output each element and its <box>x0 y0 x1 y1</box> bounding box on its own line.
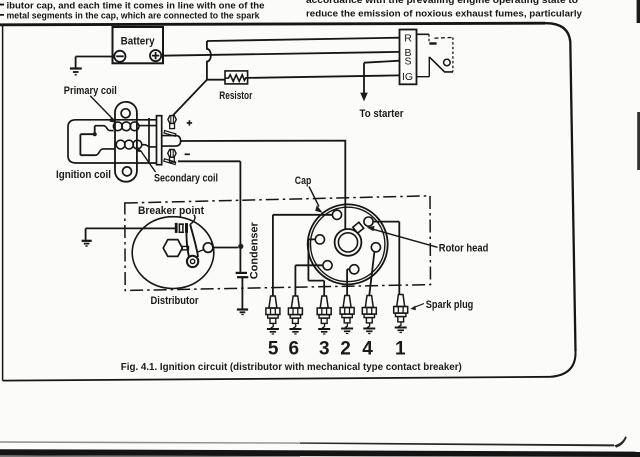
spark plug 5 <box>266 296 280 334</box>
wire coil - to breaker node <box>178 161 240 272</box>
svg-text:Resistor: Resistor <box>219 90 253 102</box>
label Breaker point with leader <box>138 205 204 225</box>
coil HT output nose <box>162 136 181 147</box>
cam hexagon <box>163 240 182 257</box>
page body text top-right <box>306 0 583 19</box>
svg-text:S: S <box>404 56 411 68</box>
ignition switch box U1 (R B S IG) <box>400 30 417 85</box>
wire cap terminal to plug 2 <box>347 269 350 295</box>
wire cap terminal to plug 4 <box>369 252 374 296</box>
breaker arm <box>186 225 198 258</box>
wire bus to R terminal <box>207 38 400 41</box>
battery positive terminal <box>150 50 161 61</box>
rotor head (tilted square) <box>353 222 364 233</box>
resistor R <box>219 71 253 102</box>
svg-text:Distributor: Distributor <box>151 295 200 307</box>
minus label <box>185 153 190 155</box>
wire resistor to IG terminal <box>248 75 400 78</box>
label Primary coil with leader <box>64 85 117 123</box>
breaker point assembly: fixed contact <box>176 223 184 233</box>
distributor enclosure (dash-dot) <box>125 196 431 291</box>
svg-text:1: 1 <box>395 338 406 359</box>
label Secondary coil with leader <box>137 147 219 185</box>
condenser C1 <box>236 273 249 309</box>
distributor cap outer circles <box>308 204 388 284</box>
cam link <box>182 246 188 250</box>
secondary coil winding L2 <box>96 140 158 155</box>
svg-text:metal segments in the cap, whi: metal segments in the cap, which are con… <box>7 11 261 22</box>
breaker pivot <box>187 256 198 267</box>
battery negative terminal <box>114 51 125 62</box>
rubbing block circle <box>198 243 213 253</box>
ignition switch contact symbol <box>417 34 454 76</box>
page body text top-left <box>0 0 265 21</box>
label Rotor head with arrow <box>367 226 489 255</box>
wire S terminal to starter <box>364 61 400 94</box>
spark plug 6 <box>288 296 302 334</box>
svg-text:Secondary coil: Secondary coil <box>154 173 218 185</box>
node A (primary-secondary junction dot) <box>80 126 96 156</box>
svg-text:To starter: To starter <box>360 108 405 120</box>
svg-text:3: 3 <box>319 338 330 359</box>
wire battery positive to switch B terminal <box>161 52 399 56</box>
coil terminal plate <box>157 116 162 165</box>
svg-text:Spark plug: Spark plug <box>426 299 474 311</box>
svg-text:accordance with the prevailing: accordance with the prevailing engine op… <box>306 0 578 6</box>
node junction dot (condenser tap) <box>238 244 243 249</box>
coil + terminal bolt <box>164 116 176 137</box>
svg-text:R: R <box>404 33 412 45</box>
ignition coil T1: case body <box>68 120 157 163</box>
svg-text:Ignition coil: Ignition coil <box>56 169 111 181</box>
svg-text:ibutor cap, and each time it c: ibutor cap, and each time it comes in li… <box>7 0 265 11</box>
svg-text:5: 5 <box>268 338 279 359</box>
cylinder numbers <box>268 338 406 359</box>
svg-text:Condenser: Condenser <box>249 222 261 280</box>
wire secondary HT to cap center <box>181 141 346 230</box>
ground (condenser) <box>237 310 248 315</box>
wire fixed contact to ground <box>86 228 176 240</box>
wire cap terminal to plug 5 <box>273 215 333 296</box>
svg-text:6: 6 <box>289 338 300 359</box>
spark plug 3 <box>317 296 331 334</box>
plus label <box>187 120 192 125</box>
ground (battery) <box>70 57 82 75</box>
breaker moving contact <box>185 223 188 233</box>
wire cap terminal to plug 6 <box>295 265 323 296</box>
label Cap with arrow <box>295 175 323 213</box>
svg-text:Battery: Battery <box>121 35 156 47</box>
wire breaker arm to node <box>213 247 238 249</box>
svg-text:Fig. 4.1. Ignition circuit (di: Fig. 4.1. Ignition circuit (distributor … <box>121 362 462 373</box>
wire battery negative to ground <box>76 56 115 58</box>
label Spark plug with leader <box>410 299 473 311</box>
svg-text:IG: IG <box>402 71 413 83</box>
cap terminal towers <box>315 210 380 274</box>
ground (breaker) <box>82 241 92 246</box>
coil case right edge <box>148 118 150 164</box>
node bus at x=207 (hop over battery wire) <box>207 41 211 80</box>
battery B <box>113 27 164 63</box>
coil - terminal bolt <box>164 149 176 164</box>
svg-text:Primary coil: Primary coil <box>64 85 117 97</box>
primary coil winding L1 <box>95 122 156 131</box>
wire bus to coil + (diagonal) <box>173 80 207 116</box>
spark plug 1 <box>394 295 408 333</box>
svg-text:Rotor head: Rotor head <box>439 243 489 255</box>
spark plug 4 <box>362 296 376 334</box>
wire bus to resistor <box>207 79 225 81</box>
arrowhead to starter <box>360 93 368 102</box>
svg-text:reduce the emission of noxious: reduce the emission of noxious exhaust f… <box>306 8 583 19</box>
svg-text:4: 4 <box>362 338 373 359</box>
coil mounting bracket <box>115 102 137 182</box>
spark plug 2 <box>340 296 354 334</box>
svg-text:Cap: Cap <box>295 175 312 187</box>
breaker plate circle <box>132 217 214 289</box>
wire cap terminal to plug 3 <box>308 239 324 296</box>
wire cap terminal to plug 1 <box>373 222 399 295</box>
svg-text:2: 2 <box>340 338 351 359</box>
cap center tower <box>335 229 362 256</box>
